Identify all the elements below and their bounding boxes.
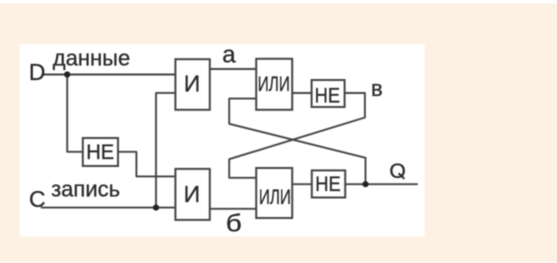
wire: NOT2 output cross feedback to OR2 upper input bbox=[229, 93, 365, 178]
wire: D node down to NOT1 bbox=[67, 75, 83, 152]
svg-text:НЕ: НЕ bbox=[315, 85, 341, 108]
svg-text:а: а bbox=[222, 42, 236, 69]
svg-text:ИЛИ: ИЛИ bbox=[258, 72, 290, 96]
svg-text:D: D bbox=[29, 59, 46, 85]
OR gate U6 box "ИЛИ" bbox=[256, 168, 292, 218]
wire: OR1 output to NOT2 bbox=[292, 92, 312, 94]
white schematic panel bbox=[20, 44, 425, 237]
bottom white edge strip bbox=[0, 262, 557, 263]
svg-text:C: C bbox=[29, 186, 46, 212]
NOT gate U7 box "НЕ" (lower output inverter) bbox=[312, 170, 345, 197]
junction node on D line bbox=[64, 71, 70, 77]
wire: AND2 output to OR2 lower input (node b) bbox=[210, 208, 256, 210]
wire: C input line bbox=[41, 207, 175, 209]
wire: NOT1 output to AND2 upper input bbox=[118, 152, 175, 177]
wire: C node up to AND1 lower input bbox=[156, 93, 175, 208]
svg-text:запись: запись bbox=[51, 177, 120, 202]
wire: NOT3 output to Q node bbox=[345, 183, 365, 185]
OR gate U2 box "ИЛИ" bbox=[256, 59, 292, 110]
NOT gate U3 box "НЕ" (input inverter) bbox=[83, 138, 118, 166]
wire: OR2 output to NOT3 bbox=[292, 183, 312, 185]
top white edge strip bbox=[0, 0, 557, 3]
label: Q letter tail bbox=[399, 173, 405, 178]
svg-text:данные: данные bbox=[53, 46, 130, 71]
wire: D input line bbox=[42, 74, 175, 76]
AND gate U5 box "И" bbox=[175, 169, 209, 220]
wire: AND1 output to OR1 (node a) bbox=[210, 68, 256, 70]
svg-text:O: O bbox=[389, 160, 405, 183]
junction node on C line bbox=[153, 205, 159, 211]
svg-text:НЕ: НЕ bbox=[315, 173, 341, 196]
svg-text:НЕ: НЕ bbox=[86, 140, 114, 164]
junction node at Q bbox=[362, 181, 368, 187]
svg-text:б: б bbox=[226, 210, 242, 237]
svg-text:И: И bbox=[184, 70, 201, 96]
svg-text:ИЛИ: ИЛИ bbox=[259, 185, 291, 209]
wire: Q output line bbox=[366, 183, 418, 185]
svg-text:И: И bbox=[184, 181, 201, 207]
AND gate U1 box "И" bbox=[175, 59, 209, 110]
wire: Q node cross feedback to OR1 lower input bbox=[229, 99, 365, 185]
NOT gate U4 box "НЕ" (upper output inverter) bbox=[312, 80, 345, 107]
svg-text:в: в bbox=[371, 76, 383, 101]
